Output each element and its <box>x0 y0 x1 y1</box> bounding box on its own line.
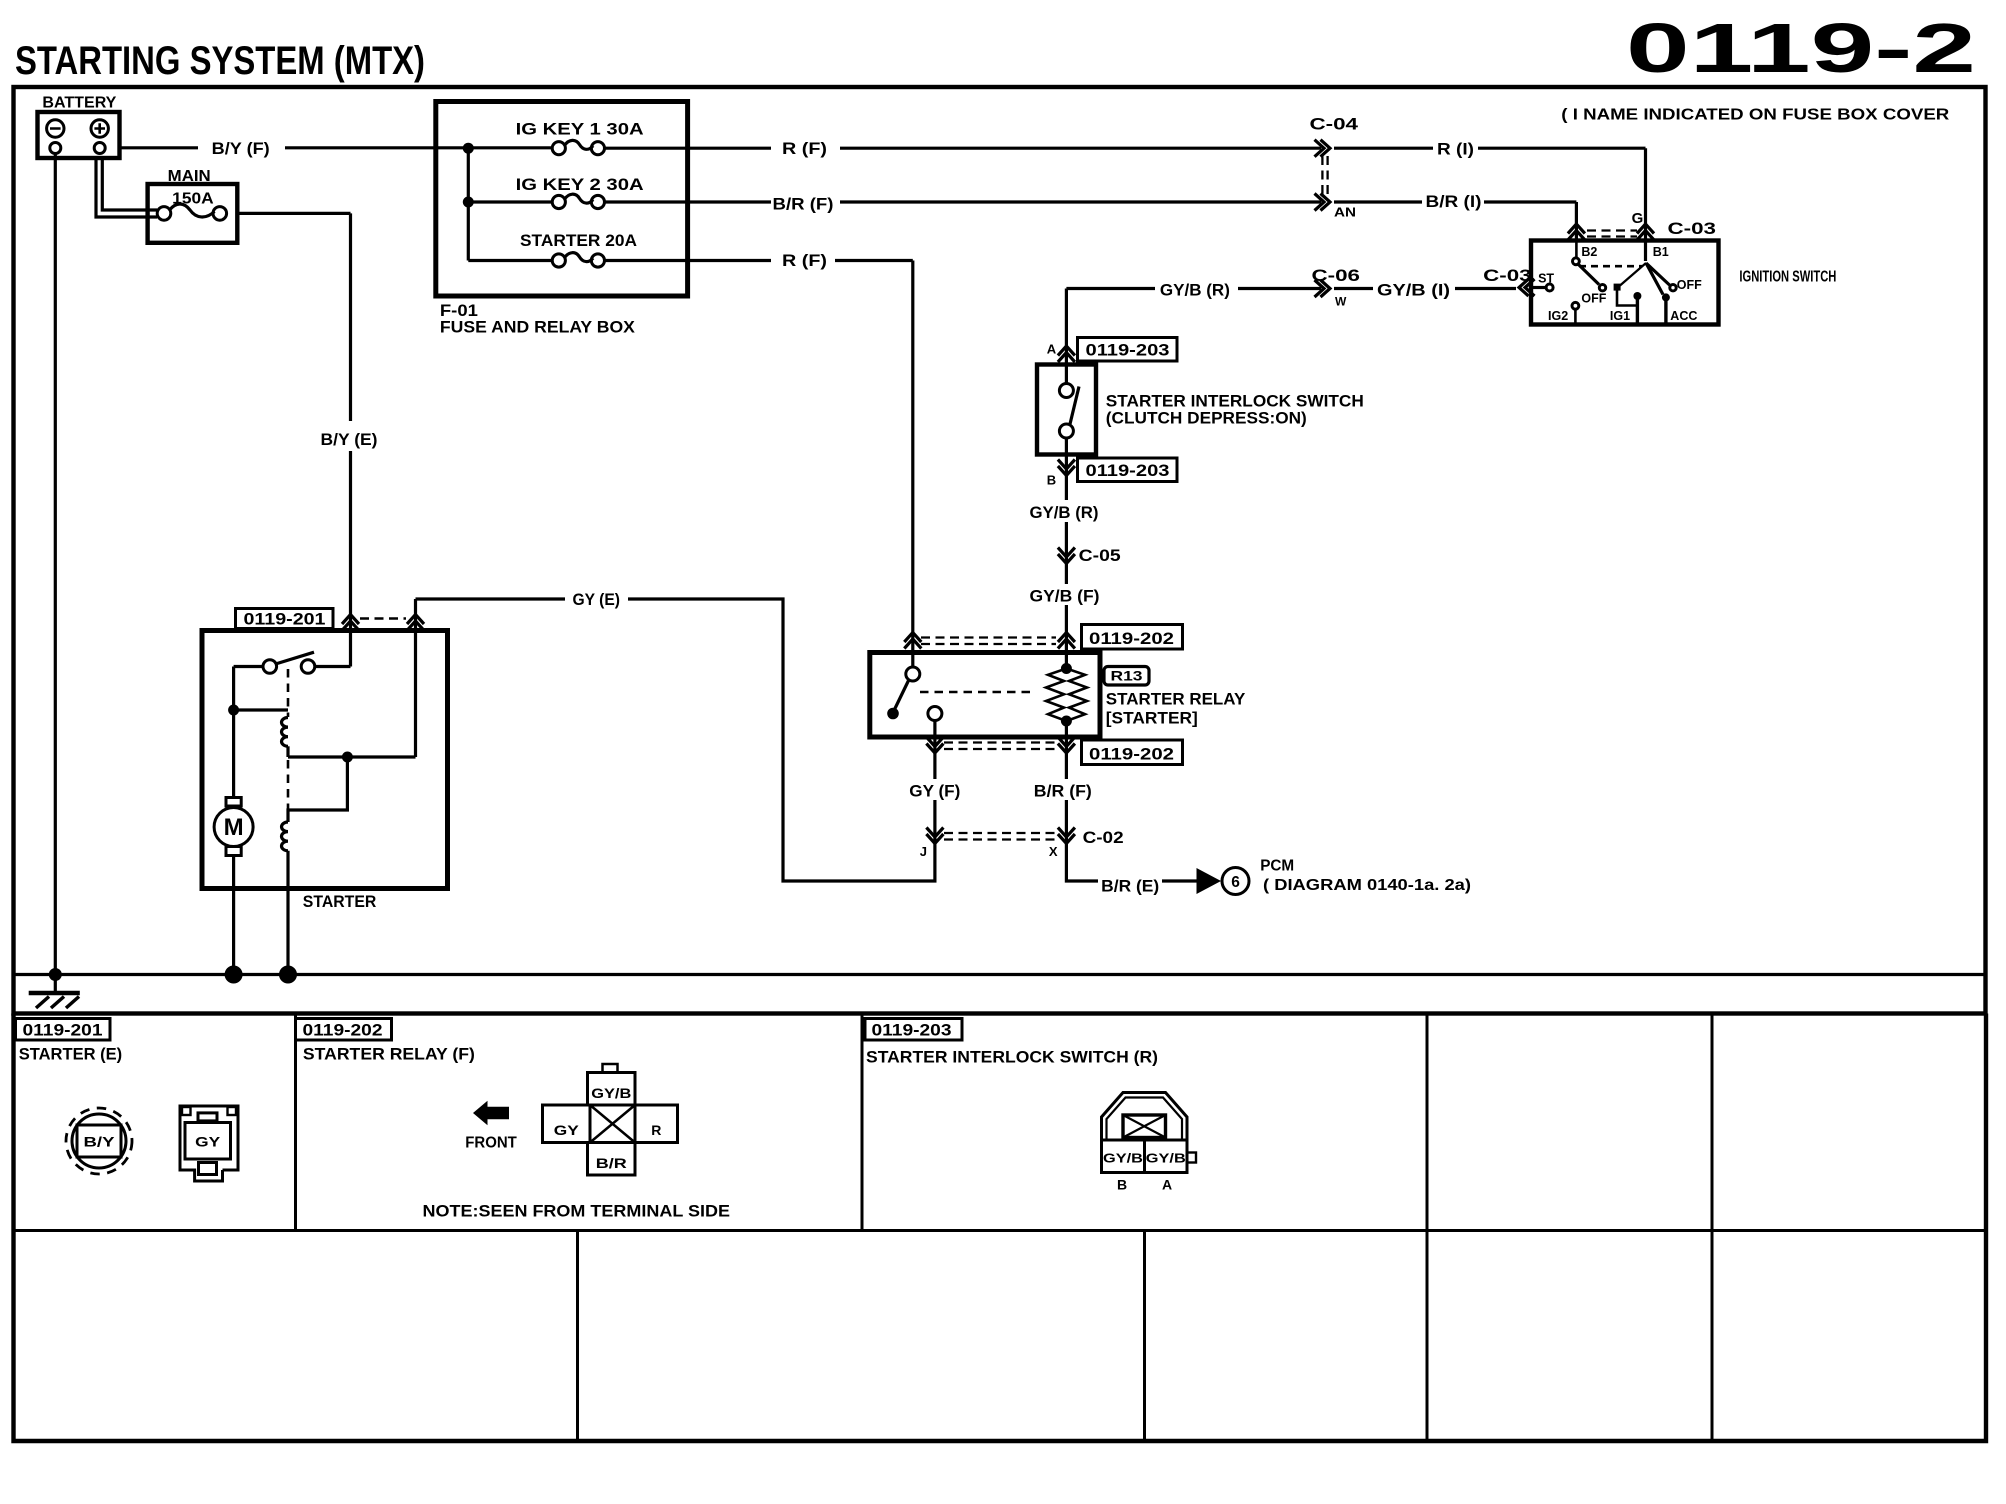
svg-text:B1: B1 <box>1653 245 1669 259</box>
svg-text:B/Y (E): B/Y (E) <box>321 430 378 449</box>
svg-text:W: W <box>1335 295 1347 309</box>
svg-text:ACC: ACC <box>1670 309 1697 323</box>
svg-text:A: A <box>1047 342 1057 357</box>
svg-text:GY (E): GY (E) <box>573 590 621 609</box>
svg-text:X: X <box>1049 844 1058 859</box>
svg-text:STARTER INTERLOCK SWITCH (R): STARTER INTERLOCK SWITCH (R) <box>866 1048 1158 1067</box>
svg-text:STARTER (E): STARTER (E) <box>19 1045 123 1064</box>
svg-text:C-05: C-05 <box>1079 547 1121 565</box>
svg-text:R: R <box>651 1122 661 1138</box>
svg-text:B/R (F): B/R (F) <box>773 195 834 214</box>
svg-text:B/R (I): B/R (I) <box>1426 192 1482 211</box>
svg-text:IGNITION SWITCH: IGNITION SWITCH <box>1739 268 1836 285</box>
svg-text:STARTER: STARTER <box>303 892 377 911</box>
svg-text:BATTERY: BATTERY <box>42 94 117 111</box>
svg-text:STARTING SYSTEM (MTX): STARTING SYSTEM (MTX) <box>15 39 425 83</box>
svg-text:C-02: C-02 <box>1083 829 1124 847</box>
svg-text:IG KEY 2 30A: IG KEY 2 30A <box>516 175 644 194</box>
svg-text:STARTER INTERLOCK SWITCH: STARTER INTERLOCK SWITCH <box>1106 392 1364 411</box>
svg-text:IG2: IG2 <box>1548 309 1568 323</box>
svg-text:R (F): R (F) <box>782 139 827 158</box>
svg-text:B/R (E): B/R (E) <box>1101 877 1159 896</box>
svg-text:GY/B: GY/B <box>591 1085 631 1101</box>
svg-text:ST: ST <box>1538 271 1554 285</box>
svg-text:M: M <box>224 814 244 841</box>
svg-text:C-06: C-06 <box>1312 266 1361 285</box>
svg-text:MAIN: MAIN <box>168 168 211 185</box>
svg-text:C-04: C-04 <box>1310 115 1359 134</box>
svg-text:0119-202: 0119-202 <box>303 1021 383 1039</box>
svg-text:0119-203: 0119-203 <box>872 1021 952 1039</box>
svg-text:B: B <box>1117 1177 1127 1193</box>
svg-text:OFF: OFF <box>1581 291 1606 305</box>
svg-text:OFF: OFF <box>1677 278 1702 292</box>
svg-text:150A: 150A <box>172 190 214 207</box>
svg-text:( I NAME INDICATED ON FUSE BOX: ( I NAME INDICATED ON FUSE BOX COVER <box>1561 107 1949 124</box>
svg-text:GY (F): GY (F) <box>909 782 960 801</box>
svg-text:GY: GY <box>195 1134 221 1150</box>
svg-text:6: 6 <box>1231 874 1240 891</box>
svg-text:C-03: C-03 <box>1668 219 1717 238</box>
svg-text:GY/B (I): GY/B (I) <box>1377 281 1450 300</box>
svg-text:0119-201: 0119-201 <box>244 610 326 628</box>
svg-text:GY/B: GY/B <box>1103 1151 1143 1166</box>
svg-text:0119-202: 0119-202 <box>1089 746 1174 764</box>
svg-text:GY/B (F): GY/B (F) <box>1030 587 1100 606</box>
svg-text:GY/B (R): GY/B (R) <box>1160 281 1230 300</box>
svg-text:IG1: IG1 <box>1610 309 1630 323</box>
svg-text:( DIAGRAM 0140-1a. 2a): ( DIAGRAM 0140-1a. 2a) <box>1263 877 1471 894</box>
svg-text:(CLUTCH DEPRESS:ON): (CLUTCH DEPRESS:ON) <box>1106 409 1307 428</box>
svg-text:R (I): R (I) <box>1437 140 1474 159</box>
svg-text:0119-203: 0119-203 <box>1086 341 1170 359</box>
svg-text:J: J <box>920 844 927 859</box>
svg-text:A: A <box>1162 1177 1172 1193</box>
svg-text:PCM: PCM <box>1260 857 1294 874</box>
svg-text:B/R: B/R <box>596 1155 627 1171</box>
svg-text:GY: GY <box>554 1122 580 1138</box>
svg-text:B/Y: B/Y <box>84 1134 116 1150</box>
svg-text:G: G <box>1632 210 1644 227</box>
svg-text:STARTER 20A: STARTER 20A <box>520 231 637 250</box>
svg-text:AN: AN <box>1334 205 1356 220</box>
svg-text:GY/B (R): GY/B (R) <box>1030 503 1099 522</box>
svg-text:B2: B2 <box>1581 245 1597 259</box>
svg-text:FUSE AND RELAY BOX: FUSE AND RELAY BOX <box>440 318 636 337</box>
svg-text:0119-201: 0119-201 <box>23 1021 103 1039</box>
svg-text:B/R (F): B/R (F) <box>1034 782 1092 801</box>
svg-text:B/Y (F): B/Y (F) <box>212 139 270 158</box>
svg-text:0119-202: 0119-202 <box>1089 630 1174 648</box>
svg-text:R (F): R (F) <box>782 251 827 270</box>
svg-text:FRONT: FRONT <box>465 1135 517 1152</box>
svg-text:NOTE:SEEN FROM TERMINAL SIDE: NOTE:SEEN FROM TERMINAL SIDE <box>423 1202 731 1221</box>
svg-text:STARTER RELAY: STARTER RELAY <box>1106 690 1246 709</box>
svg-text:STARTER RELAY (F): STARTER RELAY (F) <box>303 1045 475 1064</box>
svg-text:[STARTER]: [STARTER] <box>1106 708 1198 727</box>
svg-text:0119-2: 0119-2 <box>1626 9 1976 87</box>
svg-text:R13: R13 <box>1111 668 1143 684</box>
svg-text:C-03: C-03 <box>1483 266 1532 285</box>
svg-text:0119-203: 0119-203 <box>1086 462 1170 480</box>
svg-text:B: B <box>1047 473 1056 488</box>
svg-text:IG KEY 1 30A: IG KEY 1 30A <box>516 119 644 138</box>
svg-text:GY/B: GY/B <box>1146 1151 1186 1166</box>
